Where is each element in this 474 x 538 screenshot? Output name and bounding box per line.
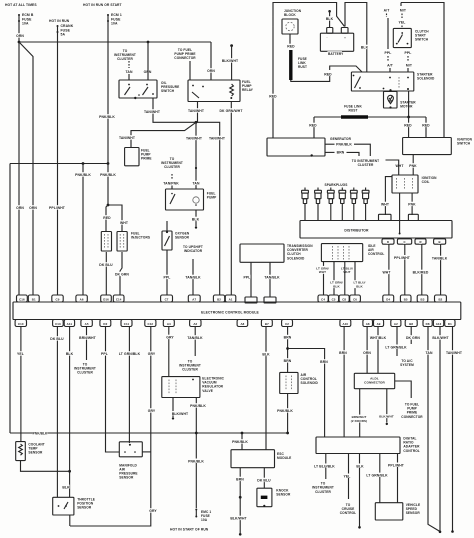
svg-text:LT GRN/BLK: LT GRN/BLK (119, 352, 141, 356)
wire WHT ignition coil to distributor (385, 177, 392, 215)
fuse ECM B 10A (18, 14, 20, 16)
svg-text:YEL: YEL (344, 474, 351, 478)
junction dot TAN/WHT (195, 121, 198, 124)
ECM bottom pin D1 (445, 320, 455, 327)
svg-text:YEL: YEL (17, 352, 24, 356)
wire LT GRN/BLK ECM A2 to AC system (396, 327, 398, 357)
junction dot ORN trunk (18, 41, 21, 44)
wire ORN trunk horizontal y42 (19, 41, 211, 43)
svg-text:B: B (439, 240, 441, 244)
spark plug 1 (304, 188, 306, 191)
junction dot ESC feed on bus (241, 432, 244, 435)
ESC module (231, 450, 275, 468)
fusible link RUST vertical (289, 50, 292, 80)
svg-text:A10: A10 (343, 322, 349, 326)
wire BLK fuel pump ground (195, 210, 197, 226)
junction dot injector feed (107, 204, 110, 207)
ECM top pin C16 (17, 295, 28, 302)
junction dot BLK sensor ground (68, 470, 71, 473)
clutch start switch (393, 28, 411, 47)
svg-text:RED: RED (404, 124, 412, 128)
wire PPL/WHT distributor C to ECM pin B5 (404, 244, 406, 295)
wire TAN/BLK from upshift indicator to ECM pin A7 (183, 244, 203, 252)
spark plug 4 (341, 188, 343, 191)
wire TAN/WHT from oil pressure switch (153, 98, 220, 295)
ECM bottom pin D8 (423, 320, 432, 327)
svg-text:D8: D8 (426, 322, 430, 326)
wire battery positive to starter solenoid BLK (345, 3, 367, 73)
ECM top pin C14 (113, 295, 124, 302)
svg-text:GENERATOR: GENERATOR (330, 137, 352, 141)
wire PNK/BLK EVRV to bus and fuse (195, 398, 197, 509)
svg-text:BRN: BRN (284, 359, 292, 363)
ECM bottom pin B8 (405, 320, 417, 327)
svg-text:RED: RED (287, 45, 295, 49)
wire BRN ECM A10 to ALDL (343, 327, 345, 438)
ECM top pin D16 (101, 295, 112, 302)
junction dot BRN branch (286, 347, 289, 350)
svg-text:A12: A12 (436, 322, 442, 326)
wire DK BLU ESC to knock sensor (263, 468, 265, 489)
svg-text:BLK: BLK (326, 17, 334, 21)
svg-text:PNK/BLK: PNK/BLK (336, 143, 352, 147)
junction dot ground bottom right 2 (451, 530, 454, 533)
wire PNK ignition switch to ignition coil (412, 155, 414, 175)
wire TAN into fuel pump (192, 181, 199, 185)
svg-text:ORN: ORN (363, 351, 371, 355)
wire to fuel pump prime connector label (175, 47, 195, 59)
ECM bottom pin A4 (163, 320, 174, 327)
electronic vacuum regulator valve (162, 377, 200, 398)
svg-text:WHT: WHT (120, 221, 129, 225)
svg-text:B8: B8 (409, 322, 413, 326)
svg-text:PPL/WHT: PPL/WHT (394, 256, 411, 260)
svg-text:B2: B2 (438, 297, 442, 301)
ECM bottom pin A5 (81, 320, 92, 327)
manifold air pressure sensor (119, 442, 142, 457)
wire ORN branch diagonal down to ECM pin B1 (19, 42, 33, 295)
ECM bottom pin A10 (340, 320, 351, 327)
vehicle speed sensor (375, 503, 403, 520)
wire left rail PNK/BLK corner (9, 164, 11, 434)
ECM top pin B5 (400, 295, 411, 302)
fuel pump prime connector (125, 148, 139, 166)
ECM top pin B2 (435, 295, 447, 302)
ECM bottom pin A2 (190, 320, 201, 327)
svg-text:DK GRN: DK GRN (406, 336, 420, 340)
svg-text:ORN: ORN (207, 69, 215, 73)
distributor pin B (434, 239, 446, 244)
svg-text:DK BLU: DK BLU (257, 479, 271, 483)
svg-text:FUSELINKRUST: FUSELINKRUST (298, 57, 307, 69)
wire TAN from instrument cluster to oil pressure switch (115, 48, 135, 60)
wire LT BLU/WHT IAC to ECM pin C5 (333, 262, 335, 295)
node HOT AT ALL TIMES (4, 2, 37, 6)
wire LT GRN/BLK DRAC to VSS (379, 454, 381, 503)
wire RED cable to ignition switch pin 1 (408, 117, 410, 138)
wire GRY ECM C12 to TPS return (70, 327, 151, 527)
ECM bottom pin A8 (363, 320, 373, 327)
svg-text:RED: RED (103, 216, 111, 220)
svg-text:PNK/BLK: PNK/BLK (232, 440, 248, 444)
node TO INSTRUMENT CLUSTER generator (352, 158, 378, 166)
wire TAN/PNK from instrument cluster to fuel pump (162, 156, 182, 168)
svg-text:PPL/WHT: PPL/WHT (49, 206, 66, 210)
svg-text:D4: D4 (386, 297, 390, 301)
ECM bottom pin C10 (15, 320, 26, 327)
svg-text:A1: A1 (229, 297, 233, 301)
label SPARKPLUGS (326, 182, 346, 186)
svg-text:BRN: BRN (320, 360, 328, 364)
svg-text:C6: C6 (353, 297, 357, 301)
ECM bottom pin C13 (53, 320, 64, 327)
wire BRN/WHT ECM A5 to instrument cluster (86, 327, 88, 361)
wire RED junction block to fuse link (289, 34, 291, 45)
junction dot ECM1 feed (107, 162, 110, 165)
svg-text:TAN/BLK: TAN/BLK (432, 257, 448, 261)
svg-text:PPL: PPL (164, 276, 171, 280)
wire TAN/WHT relay output to junction (197, 102, 199, 123)
wire coolant sensor ground loop (21, 461, 70, 472)
svg-text:SPARKPLUGS: SPARKPLUGS (325, 183, 348, 187)
ECM bottom pin B7 (261, 320, 272, 327)
oil pressure switch (119, 80, 157, 98)
transmission converter clutch solenoid (240, 244, 284, 262)
wire TAN/WHT branch down to fuel pump (195, 122, 197, 189)
wire PPL oxygen sensor to ECM pin C7 (166, 250, 168, 295)
wire RED fuse link to starter solenoid (291, 76, 330, 81)
wire TPS ground to GRY return (69, 515, 71, 526)
TCC ECM connector bump 1 (245, 297, 257, 303)
wire LT BLU/BLK IAC to ECM pin C6 (354, 262, 356, 295)
spark plug 3 (330, 188, 332, 191)
battery (327, 28, 333, 34)
ECM bottom pin C12 (145, 320, 156, 327)
ECM bottom pin C11 (121, 320, 132, 327)
wire BLK battery negative stub (328, 10, 331, 13)
ECM top pin B1 (28, 295, 39, 302)
distributor top connector 1 (379, 214, 392, 220)
wire RED into generator (329, 136, 348, 140)
wire PNK/BLK generator output (325, 143, 335, 145)
wire TAN/BLK distributor B to ECM pin B2 (440, 244, 442, 294)
wire RED cable to ignition switch pin 2 (425, 117, 427, 138)
svg-text:BRN/WHT: BRN/WHT (79, 336, 97, 340)
wire DK GRN injector 2 to ECM pin C14 (120, 252, 122, 295)
svg-text:C9: C9 (56, 297, 60, 301)
svg-text:A11: A11 (67, 322, 73, 326)
svg-text:ORN: ORN (16, 206, 24, 210)
svg-text:TAN/WHT: TAN/WHT (144, 110, 161, 114)
svg-text:+: + (344, 36, 346, 40)
svg-text:C2: C2 (285, 322, 289, 326)
svg-text:C8: C8 (342, 297, 346, 301)
fusible link RUST on starter cable (341, 115, 368, 118)
wire RED cable to generator (313, 117, 315, 138)
distributor pin C (397, 239, 411, 244)
svg-text:C12: C12 (148, 322, 154, 326)
svg-text:PNK/BLK: PNK/BLK (188, 459, 204, 463)
svg-text:B2: B2 (217, 297, 221, 301)
svg-text:GRY: GRY (148, 409, 156, 413)
wire BRN ECM C2 to air control solenoid (287, 327, 289, 373)
wire MAP sensor to GRY reference (142, 451, 151, 453)
node HOT IN RUN OR START (82, 2, 121, 6)
svg-text:PNK/BLK: PNK/BLK (75, 173, 91, 177)
wire PPL/WHT DRAC to VSS (397, 454, 399, 503)
ECM top pin C7 (161, 295, 173, 302)
fuel pump relay (188, 80, 240, 102)
clutch start switch circuit A/T (383, 8, 390, 12)
wire LT GRN/WHT IAC to ECM pin C4 (323, 262, 325, 295)
ECM top pin C8 (339, 295, 349, 302)
wire PNK/BLK down to injector junction (107, 164, 109, 206)
wire GRY ECM A4 to EVRV (168, 327, 170, 377)
svg-text:C5: C5 (332, 297, 336, 301)
svg-text:BLK/RED: BLK/RED (413, 271, 429, 275)
node HOT IN START OF RUN (169, 527, 208, 531)
wire RED to fuel injector 1 (106, 205, 108, 231)
svg-text:BLK: BLK (66, 352, 74, 356)
svg-text:ORN: ORN (29, 206, 37, 210)
svg-text:BLK: BLK (361, 46, 369, 50)
wire DK GRN ECM B8 stub (410, 327, 412, 345)
wire PNK/BLK bus y433 (10, 432, 288, 434)
svg-text:A4: A4 (167, 322, 171, 326)
wire TAN/WHT ECM D1 long run (452, 327, 454, 532)
fuse ECM 1 10A (107, 14, 109, 16)
svg-text:A7: A7 (192, 297, 196, 301)
svg-text:DK BLU: DK BLU (99, 263, 113, 267)
ECM bottom pin A8 (237, 320, 248, 327)
wire WHT/BLK ECM A9 to ALDL (377, 327, 379, 374)
svg-text:OXYGENSENSOR: OXYGENSENSOR (175, 232, 190, 240)
svg-text:DK GRN: DK GRN (115, 273, 129, 277)
svg-text:M/T: M/T (406, 64, 413, 68)
ECM top pin A7 (188, 295, 200, 302)
svg-text:C4: C4 (321, 297, 325, 301)
wire BRN branch to DRAC (288, 349, 325, 438)
TCC ECM connector bump 2 (264, 297, 276, 303)
svg-text:TAN/BLK: TAN/BLK (264, 276, 280, 280)
air control solenoid (280, 372, 298, 393)
wire PNK/BLK ECM1 fuse down to junction y163.5 (107, 21, 109, 164)
wire DK BLU ECM C13 to TPS (56, 327, 58, 498)
wire BLK ECM A11 to TPS (69, 327, 71, 498)
wire TAN/WHT branch to fuel pump prime (131, 122, 196, 147)
distributor pin D (382, 239, 394, 244)
wire distributor R to ECM pin B3 (421, 244, 423, 295)
svg-text:PPL: PPL (101, 352, 108, 356)
svg-text:B5: B5 (404, 297, 408, 301)
svg-text:BLK: BLK (192, 218, 200, 222)
svg-text:RED: RED (422, 124, 430, 128)
wire LT GRN/BLK ECM C11 to MAP sensor (128, 327, 130, 444)
ECM bottom pin A11 (64, 320, 74, 327)
svg-text:WHT/BLK: WHT/BLK (370, 336, 387, 340)
fuse CRANK 5A (57, 25, 59, 27)
wire PPL/WHT crank fuse down to ECM pin C9 (57, 32, 59, 295)
svg-text:A/T: A/T (387, 64, 394, 68)
knock sensor (257, 488, 272, 507)
wire BRN generator output (325, 151, 335, 153)
svg-text:C: C (403, 240, 405, 244)
svg-text:C10: C10 (18, 322, 24, 326)
svg-text:GRY: GRY (149, 509, 157, 513)
svg-text:TAN/PNK: TAN/PNK (163, 182, 179, 186)
svg-text:A/T: A/T (384, 9, 391, 13)
wire TAN ECM D8 long run (428, 327, 440, 532)
wire distributor D to ECM pin D4 (388, 244, 390, 295)
svg-text:HOT AT ALL TIMES: HOT AT ALL TIMES (5, 3, 37, 7)
svg-text:A6: A6 (80, 297, 84, 301)
svg-text:M/T: M/T (400, 9, 407, 13)
svg-text:DISTRIBUTOR: DISTRIBUTOR (344, 229, 369, 233)
svg-text:RED: RED (309, 124, 317, 128)
svg-text:RED: RED (269, 95, 277, 99)
wire LT GRN/BLK IAC to ECM pin C8 (344, 262, 346, 295)
distributor (300, 221, 452, 239)
wire PPL TCC to ECM (250, 262, 252, 297)
svg-text:RED: RED (324, 73, 332, 77)
junction dot PNK/BLK branch A6 (82, 162, 85, 165)
svg-text:LT GRN/BLK: LT GRN/BLK (366, 473, 388, 477)
generator (267, 138, 325, 156)
junction dot EVRV on PNK/BLK bus (195, 432, 198, 435)
junction block (283, 8, 300, 16)
svg-text:C11: C11 (124, 322, 130, 326)
distributor pin A (415, 239, 426, 244)
wire ORN from ECM B fuse (18, 21, 20, 42)
junction dot BRN BLK/WHT splice (239, 496, 242, 499)
svg-text:TAN/WHT: TAN/WHT (188, 109, 205, 113)
svg-text:HOT IN RUN OR START: HOT IN RUN OR START (83, 3, 122, 7)
wire RED junction block feed from battery (273, 3, 345, 139)
ECM bottom pin A12 (433, 320, 443, 327)
svg-text:BLK/WHT: BLK/WHT (172, 412, 189, 416)
wire BLK/WHT ECM A12 long run (439, 327, 441, 532)
svg-text:BLK/WHT: BLK/WHT (432, 336, 449, 340)
svg-text:PNK/BLK: PNK/BLK (33, 431, 48, 435)
svg-text:BLK: BLK (356, 464, 364, 468)
wire LT BLU/BLK DRAC to instrument cluster (325, 454, 327, 480)
svg-text:BRN: BRN (284, 336, 292, 340)
fuel injector 1 (101, 232, 111, 252)
node HOT IN RUN (48, 18, 69, 22)
junction dot ORN branch to oil pressure switch (147, 41, 150, 44)
starter motor (389, 89, 391, 91)
svg-text:D16: D16 (103, 297, 109, 301)
ALDL connector (354, 373, 394, 388)
svg-text:HOT IN START OF RUN: HOT IN START OF RUN (170, 528, 209, 532)
svg-text:TO A/CSYSTEM: TO A/CSYSTEM (400, 359, 414, 367)
wire WHT instrument cluster to ignition coil (386, 160, 399, 175)
ECM bottom pin A9 (374, 320, 384, 327)
ignition switch (403, 138, 452, 155)
wire YEL ECM C10 to coolant temp sensor (20, 327, 22, 442)
svg-text:PNK/BLK: PNK/BLK (99, 115, 115, 119)
junction dot starter cable (407, 116, 410, 119)
svg-text:GRY: GRY (166, 336, 174, 340)
clutch start switch circuit M/T (399, 8, 406, 12)
wire WHT to fuel injector 2 (108, 205, 122, 231)
svg-text:A2: A2 (193, 322, 197, 326)
wire YEL DRAC to cruise control (348, 454, 350, 500)
wire TAN/BLK TCC to ECM (269, 262, 271, 297)
svg-text:ORN: ORN (16, 34, 24, 38)
svg-text:PPL: PPL (385, 51, 392, 55)
idle air control (321, 244, 362, 262)
ECM top pin B2 (213, 295, 224, 302)
svg-text:TAN/BLK: TAN/BLK (185, 276, 201, 280)
svg-text:YEL: YEL (399, 21, 406, 25)
wire ORN into fuel pump relay (210, 42, 212, 80)
ECM bottom pin A2 (391, 320, 401, 327)
svg-text:BLK: BLK (62, 485, 70, 489)
spark plug 6 (365, 188, 367, 191)
svg-text:BRN: BRN (236, 478, 244, 482)
wire PNK/BLK branch down to ECM pin A6 (82, 164, 84, 296)
svg-text:TAN/WHT: TAN/WHT (119, 136, 136, 140)
wire RED starter cable y117 (314, 116, 426, 118)
svg-text:PNK: PNK (409, 164, 417, 168)
svg-text:GRY: GRY (148, 352, 156, 356)
svg-text:BATTERY: BATTERY (328, 52, 344, 56)
fuel injector 2 (117, 232, 127, 252)
wire BLK/WHT ESC ground (239, 497, 241, 533)
ignition coil (392, 175, 418, 193)
wire BLK/WHT stub into fuel pump relay (230, 44, 233, 47)
ECM top pin C9 (52, 295, 63, 302)
wire PNK ignition coil to distributor (411, 193, 413, 215)
wire ALDL to fuel pump prime connector (395, 381, 412, 398)
svg-text:C16: C16 (19, 297, 25, 301)
wire coil secondary to distributor (399, 193, 401, 233)
digital ratio adapter control (316, 437, 400, 454)
wire M/T feed from top rail (401, 3, 444, 138)
wire PNK/BLK bus to ESC module (241, 433, 243, 450)
svg-text:PPL: PPL (244, 276, 251, 280)
svg-text:BLK/WHT: BLK/WHT (222, 59, 239, 63)
wire BRN ESC module down (239, 468, 241, 496)
wire BLK ECM B7 to ESC module (265, 327, 267, 450)
wire BRN/WHT ALDL to DRAC (359, 389, 361, 437)
fuse ECM 1 bottom (195, 509, 197, 511)
svg-text:B3: B3 (421, 297, 425, 301)
svg-text:BLK: BLK (262, 353, 270, 357)
junction dot air control solenoid on bus (286, 432, 289, 435)
svg-text:D1: D1 (448, 322, 452, 326)
svg-text:A2: A2 (394, 322, 398, 326)
svg-text:TAN: TAN (125, 70, 132, 74)
svg-text:LT GRN/BLK: LT GRN/BLK (385, 345, 407, 349)
throttle position sensor (53, 497, 74, 515)
ECM top pin B3 (417, 295, 428, 302)
distributor top connector 2 (408, 214, 418, 220)
ECM top pin C6 (350, 295, 361, 302)
svg-text:LT BLU/BLK: LT BLU/BLK (314, 464, 335, 468)
junction dot ground bottom right 1 (439, 531, 442, 534)
svg-text:TO UPSHIFTINDICATOR: TO UPSHIFTINDICATOR (183, 245, 203, 253)
svg-text:WHT: WHT (381, 203, 390, 207)
wire ORN into oil pressure switch (144, 69, 151, 73)
svg-text:PNK: PNK (408, 203, 416, 207)
svg-text:WHT: WHT (395, 164, 404, 168)
spark plug 5 (353, 188, 355, 191)
svg-text:HOT IN RUN: HOT IN RUN (49, 19, 70, 23)
wire BLK DRAC ground (359, 454, 361, 527)
svg-text:PPL: PPL (405, 51, 412, 55)
